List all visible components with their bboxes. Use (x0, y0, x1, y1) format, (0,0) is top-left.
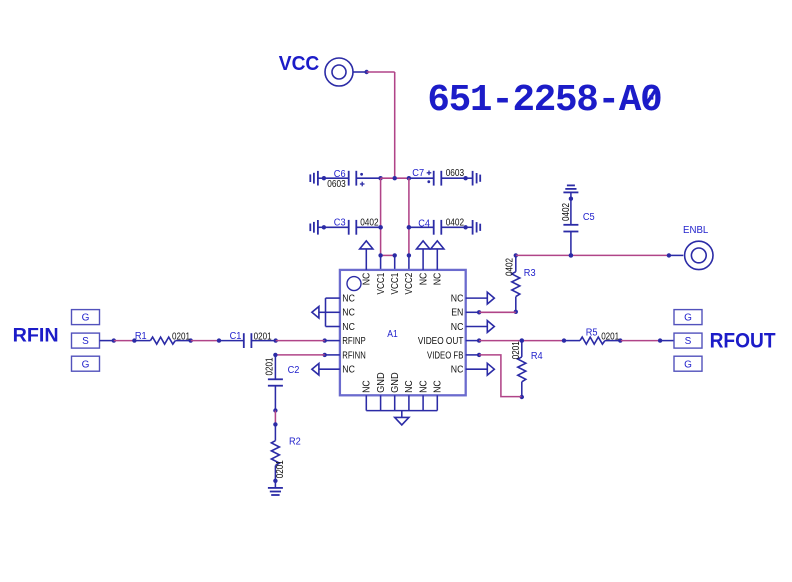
svg-text:NC: NC (418, 380, 429, 393)
wire VIDEO OUT net (479, 340, 564, 342)
junction dots on cap rows (378, 225, 382, 229)
svg-text:NC: NC (342, 294, 355, 305)
svg-text:NC: NC (362, 380, 373, 393)
wire R5 to RFOUT (621, 340, 660, 342)
pin NC (left 1-3) bracket (326, 297, 340, 299)
pin NC (left bottom) (319, 368, 340, 370)
svg-text:0402: 0402 (446, 218, 464, 229)
wire R3 to C5 to ENBL (516, 254, 669, 256)
wire C2 to R2 (274, 411, 276, 425)
resistor R2 (273, 422, 277, 426)
pin NC (top 6) (436, 249, 438, 270)
ground (left of C3) (318, 226, 324, 228)
svg-text:C1: C1 (230, 331, 242, 342)
svg-text:RFINN: RFINN (342, 350, 366, 361)
pad G (RFIN top) (72, 310, 100, 325)
svg-text:0402: 0402 (360, 218, 378, 229)
svg-text:VIDEO OUT: VIDEO OUT (418, 336, 464, 347)
svg-text:NC: NC (451, 322, 464, 333)
svg-text:R2: R2 (289, 437, 301, 448)
svg-text:0201: 0201 (601, 332, 619, 343)
svg-text:0201: 0201 (172, 332, 190, 343)
node ENBL port (669, 254, 683, 256)
pin NC (right 1) (466, 297, 488, 299)
pin EN (466, 311, 479, 313)
wire C6 to C7 / VCC junction (381, 177, 409, 179)
capacitor C4 (407, 225, 411, 229)
ground (left of C6) (318, 177, 324, 179)
svg-text:VIDEO FB: VIDEO FB (427, 350, 463, 361)
pad S (RFIN) (72, 333, 100, 348)
svg-text:ENBL: ENBL (683, 225, 709, 236)
pad G (RFIN bottom) (72, 356, 100, 371)
capacitor C1 (217, 338, 221, 342)
ground (right of C4) (466, 226, 473, 228)
svg-text:651-2258-A0: 651-2258-A0 (427, 80, 661, 122)
svg-text:VCC: VCC (279, 52, 320, 75)
resistor R5 (562, 338, 566, 342)
wire VCC1 feed left (380, 178, 382, 255)
svg-text:R5: R5 (586, 327, 598, 338)
wire RFINN net (275, 354, 324, 356)
svg-text:S: S (685, 336, 692, 347)
svg-text:VCC1: VCC1 (376, 273, 387, 295)
wire VCC2 feed right (408, 178, 410, 255)
svg-text:GND: GND (390, 372, 401, 393)
svg-text:G: G (684, 313, 692, 324)
svg-text:NC: NC (342, 322, 355, 333)
ground (above C5) (570, 192, 572, 198)
svg-text:NC: NC (433, 380, 444, 393)
capacitor C7 (407, 176, 411, 180)
svg-text:NC: NC (404, 380, 415, 393)
resistor R1 (132, 338, 136, 342)
svg-text:R3: R3 (524, 268, 536, 279)
capacitor C2 (273, 353, 277, 357)
capacitor C6 (322, 176, 326, 180)
svg-text:0402: 0402 (505, 258, 516, 276)
svg-text:A1: A1 (387, 328, 398, 340)
svg-text:NC: NC (433, 273, 444, 286)
resistor R3 (514, 253, 518, 257)
pin VIDEO OUT (466, 340, 479, 342)
capacitor C3 (322, 225, 326, 229)
svg-text:C5: C5 (583, 212, 595, 223)
svg-text:GND: GND (376, 372, 387, 393)
svg-text:0603: 0603 (327, 179, 345, 190)
ground (below R2) (274, 481, 276, 488)
svg-text:VCC2: VCC2 (404, 273, 415, 295)
svg-text:R4: R4 (531, 351, 543, 362)
wire C1 to RFINP (276, 340, 325, 342)
pin NC (top 5) (422, 249, 424, 270)
pin RFINP (323, 338, 327, 342)
svg-text:NC: NC (418, 273, 429, 286)
svg-text:0201: 0201 (254, 331, 272, 342)
svg-text:NC: NC (451, 365, 464, 376)
wire RFIN to R1 (100, 340, 114, 342)
pad G (RFOUT top) (674, 310, 702, 325)
pin NC (right bottom) (466, 368, 488, 370)
node VCC port (325, 58, 353, 86)
svg-text:NC: NC (362, 273, 373, 286)
wire VCC net (367, 71, 395, 73)
wire VIDEO FB to R4 (479, 355, 521, 397)
pin NC (top 1) (365, 249, 367, 270)
svg-text:0201: 0201 (265, 358, 276, 376)
wire R1 to C1 (191, 340, 219, 342)
svg-text:C7: C7 (412, 168, 424, 179)
svg-text:NC: NC (342, 365, 355, 376)
pin RFINN (323, 353, 327, 357)
svg-text:C2: C2 (288, 365, 300, 376)
pin NC (right 3) (466, 326, 488, 328)
svg-text:S: S (82, 336, 89, 347)
svg-text:0603: 0603 (446, 168, 464, 179)
svg-text:C4: C4 (418, 218, 430, 229)
svg-text:RFOUT: RFOUT (710, 328, 776, 352)
svg-text:EN: EN (451, 308, 463, 319)
pin VIDEO FB (466, 354, 479, 356)
svg-text:0201: 0201 (275, 460, 286, 478)
svg-text:0201: 0201 (511, 341, 522, 359)
pad G (RFOUT bottom) (674, 356, 702, 371)
ground (IC bottom flag) (395, 417, 409, 425)
svg-text:C3: C3 (334, 218, 346, 229)
svg-text:G: G (82, 313, 90, 324)
op-amp U A1 (IC body) (340, 270, 466, 395)
capacitor C5 (569, 197, 573, 201)
wire VCC1 pins link (381, 254, 395, 256)
pad S (RFOUT) (674, 333, 702, 348)
svg-text:VCC1: VCC1 (390, 273, 401, 295)
svg-text:R1: R1 (135, 331, 147, 342)
svg-text:RFINP: RFINP (342, 336, 365, 347)
bottom pins NC GND GND NC NC NC bus (365, 395, 367, 410)
wire EN to R3 (479, 311, 516, 313)
svg-text:RFIN: RFIN (13, 324, 59, 346)
resistor R4 (520, 338, 524, 342)
ground (right of C7) (466, 177, 473, 179)
svg-text:0402: 0402 (561, 203, 572, 221)
svg-text:NC: NC (342, 308, 355, 319)
svg-text:NC: NC (451, 294, 464, 305)
svg-text:G: G (82, 359, 90, 370)
svg-text:G: G (684, 359, 692, 370)
